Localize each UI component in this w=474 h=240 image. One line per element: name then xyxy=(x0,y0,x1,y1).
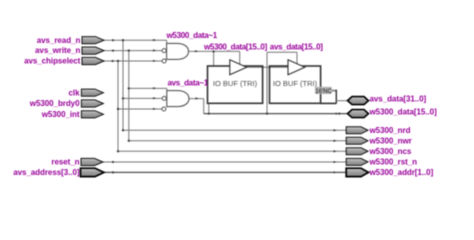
svg-text:IO BUF (TRI): IO BUF (TRI) xyxy=(273,79,318,88)
junction nwr corner xyxy=(128,140,130,142)
junction reset_n stub xyxy=(112,161,114,163)
wire vertical read fanout xyxy=(122,40,124,130)
wire avs_data pin feed xyxy=(336,100,347,102)
wire avs_data[15..0] horizontal xyxy=(267,51,297,53)
svg-text:w5300_int: w5300_int xyxy=(41,110,80,119)
bidir pin w5300_data[15..0] xyxy=(348,110,369,118)
arrowhead w5300_addr pin xyxy=(334,171,337,173)
junction read to gate2 xyxy=(122,97,124,99)
wire gate2 input1 xyxy=(129,88,167,90)
arrowhead gate1 input1 xyxy=(153,39,156,41)
svg-text:avs_chipselect: avs_chipselect xyxy=(24,57,81,66)
arrowhead w5300_nrd pin xyxy=(334,129,337,131)
arrowhead w5300_rst_n pin xyxy=(334,161,337,163)
wire w5300_data bus bottom xyxy=(204,113,348,115)
svg-text:w5300_data[15..0]: w5300_data[15..0] xyxy=(369,107,438,116)
wire reset_n to w5300_rst_n xyxy=(103,161,346,163)
svg-text:w5300_data~1: w5300_data~1 xyxy=(166,31,218,40)
input pin reset_n xyxy=(81,158,103,165)
wire gate2 input2 xyxy=(123,97,162,99)
svg-text:w5300_ncs: w5300_ncs xyxy=(369,147,412,156)
svg-text:16'NC--: 16'NC-- xyxy=(315,89,335,95)
wire vertical write fanout xyxy=(128,51,130,141)
bus joiner bracket xyxy=(335,90,337,104)
svg-text:avs_address[3..0]: avs_address[3..0] xyxy=(13,168,80,177)
junction write to gate2 xyxy=(128,87,130,89)
svg-text:avs_read_n: avs_read_n xyxy=(37,36,81,45)
wire vertical chipselect fanout xyxy=(117,61,119,151)
junction tri1 output at box2 edge xyxy=(268,66,270,68)
junction nrd corner xyxy=(122,129,124,131)
arrowhead gate2 input3 xyxy=(153,108,156,110)
arrowhead w5300_data pin xyxy=(336,112,339,114)
output pin w5300_rst_n xyxy=(346,158,368,165)
input pin avs_chipselect xyxy=(82,57,104,64)
junction avs_write_n fanout xyxy=(128,49,130,51)
wire OE drop to tri-state 1 xyxy=(239,51,241,64)
input pin avs_read_n xyxy=(82,37,104,44)
constant 16'NC xyxy=(315,87,336,95)
wire iobuf1 bottom stub xyxy=(208,103,210,114)
IO BUF (TRI) box U2 xyxy=(270,66,321,103)
wire w5300_nrd xyxy=(123,129,346,131)
bidir pin avs_data[31..0] xyxy=(348,97,369,105)
AND gate w5300_data~1 xyxy=(167,43,189,59)
output pin w5300_nwr xyxy=(346,137,368,144)
junction avs_address stub xyxy=(112,171,114,173)
svg-text:avs_data[31..0]: avs_data[31..0] xyxy=(370,95,427,104)
inverter bubble gate2 input2 xyxy=(162,96,166,100)
wire w5300_ncs xyxy=(118,150,346,152)
wire tri-state1 output to tri-state2 input xyxy=(247,66,288,68)
arrowhead w5300_ncs pin xyxy=(334,150,337,152)
wire gate1 output w5300_data~1 xyxy=(189,50,240,52)
input pin w5300_int xyxy=(81,111,103,118)
svg-text:w5300_nwr: w5300_nwr xyxy=(369,137,412,146)
inverter bubble gate1 input2 xyxy=(162,49,166,53)
arrowhead gate1 input2 xyxy=(153,49,156,51)
svg-text:w5300_addr[1..0]: w5300_addr[1..0] xyxy=(369,168,434,177)
wire OE drop to tri-state 2 xyxy=(296,52,298,64)
svg-text:w5300_nrd: w5300_nrd xyxy=(369,126,411,135)
input bus pin avs_address[3..0] xyxy=(81,168,105,176)
junction avs_write_n stub xyxy=(112,50,114,52)
inverter bubble gate2 input3 xyxy=(162,107,166,111)
junction tri1 output at box1 edge xyxy=(262,66,264,68)
wire NC constant stub xyxy=(332,89,337,91)
wire avs_address bus to w5300_addr xyxy=(104,171,346,173)
wire avs_write_n horizontal xyxy=(104,50,162,52)
junction avs_chipselect fanout xyxy=(117,60,119,62)
arrowhead gate2 output xyxy=(196,97,199,99)
wire data drop into iobuf1 xyxy=(213,51,215,66)
output pin w5300_ncs xyxy=(346,148,368,155)
tri-state triangle U1 xyxy=(230,60,247,75)
svg-text:w5300_data[15..0]: w5300_data[15..0] xyxy=(203,42,268,51)
wire avs_read_n horizontal xyxy=(104,40,167,43)
AND gate avs_data~1 xyxy=(167,91,189,107)
svg-text:w5300_rst_n: w5300_rst_n xyxy=(369,158,418,167)
svg-text:avs_data[15..0]: avs_data[15..0] xyxy=(270,42,324,51)
inverter bubble gate1 input3 xyxy=(162,59,166,63)
input pin w5300_brdy0 xyxy=(81,100,103,107)
svg-text:avs_data~1: avs_data~1 xyxy=(168,79,209,88)
svg-text:w5300_brdy0: w5300_brdy0 xyxy=(29,99,80,108)
arrowhead gate1 input3 xyxy=(153,60,156,62)
junction gate1 output to iobuf1 xyxy=(212,50,214,52)
junction data bus at pin xyxy=(338,113,340,115)
output bus pin w5300_addr[1..0] xyxy=(346,168,368,176)
svg-text:clk: clk xyxy=(69,88,81,97)
wire w5300_nwr xyxy=(129,140,346,142)
junction avs_chipselect stub xyxy=(112,60,114,62)
tri-state triangle U2 xyxy=(288,60,305,75)
junction box1 stub on data bus xyxy=(208,113,210,115)
wire gate2 output avs_data~1 xyxy=(189,99,204,114)
wire box2 output stub xyxy=(321,102,337,104)
arrowhead w5300_nwr pin xyxy=(334,140,337,142)
junction ncs corner xyxy=(117,150,119,152)
input pin clk xyxy=(81,89,103,96)
junction chipselect to gate2 xyxy=(117,108,119,110)
output pin w5300_nrd xyxy=(346,127,368,134)
input pin avs_write_n xyxy=(82,47,104,54)
svg-text:reset_n: reset_n xyxy=(51,158,79,167)
junction avs_read_n fanout xyxy=(122,39,124,41)
arrowhead gate2 input2 xyxy=(153,97,156,99)
svg-text:IO BUF (TRI): IO BUF (TRI) xyxy=(213,79,258,88)
junction avs_read_n stub xyxy=(112,39,114,41)
svg-text:avs_write_n: avs_write_n xyxy=(35,46,80,55)
arrowhead gate2 input1 xyxy=(153,87,156,89)
wire avs_chipselect horizontal xyxy=(104,60,162,62)
junction riser on data bus xyxy=(266,112,268,114)
wire gate2 input3 xyxy=(118,108,162,110)
IO BUF (TRI) box U1 xyxy=(208,66,263,103)
wire riser gate2 output to avs_data label xyxy=(266,52,268,113)
arrowhead gate1 output xyxy=(195,50,198,52)
